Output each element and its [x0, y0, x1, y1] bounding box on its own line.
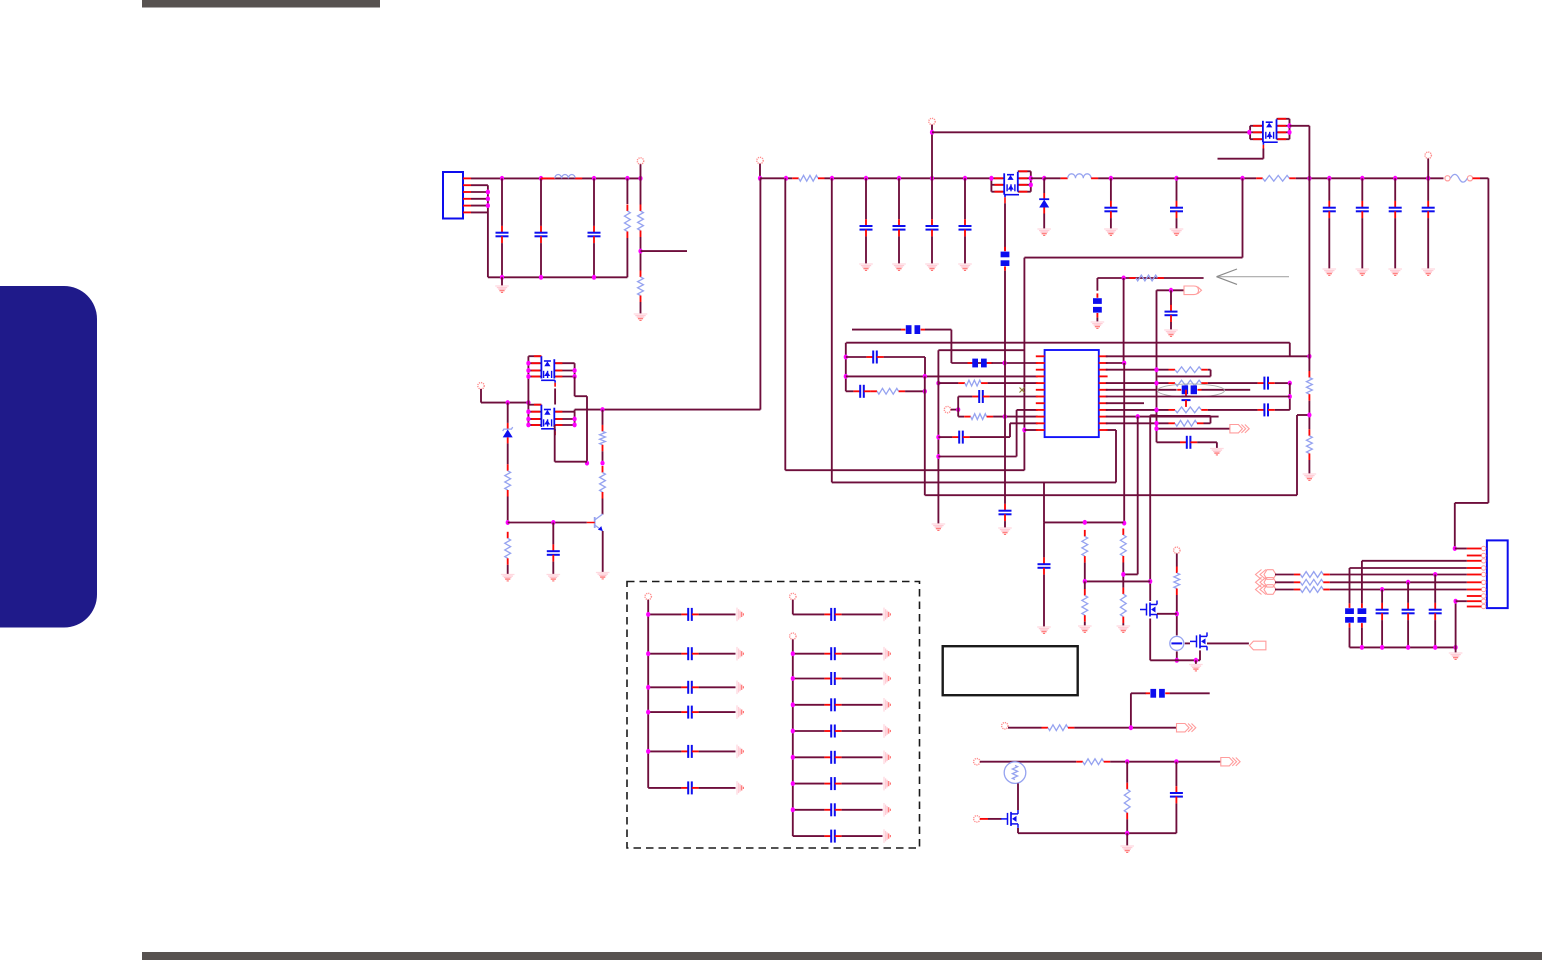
wire — [1157, 441, 1181, 443]
junction — [526, 409, 530, 414]
ground — [884, 672, 890, 686]
resistor R — [1174, 567, 1180, 596]
wire — [1106, 396, 1290, 398]
IC U1 left pin 1 — [1036, 355, 1045, 357]
capacitor C — [681, 706, 698, 719]
gnd stem — [1195, 660, 1197, 664]
junction — [844, 374, 848, 379]
junction — [539, 275, 543, 280]
ground — [998, 528, 1012, 534]
wire — [938, 349, 1024, 351]
capacitor C — [681, 781, 698, 794]
capacitor C — [681, 681, 698, 694]
rail wire — [825, 177, 992, 179]
wire — [1043, 522, 1045, 557]
wire — [842, 704, 883, 706]
wire — [647, 600, 649, 788]
resistor R on rail — [792, 175, 824, 181]
wire — [1170, 692, 1210, 694]
wire — [852, 329, 901, 331]
junction — [1433, 572, 1437, 577]
wire — [1043, 483, 1045, 522]
junction — [573, 417, 577, 422]
gate wire Q2 — [1262, 149, 1264, 159]
ground — [737, 781, 743, 795]
wire — [699, 750, 736, 752]
port P4 — [1425, 152, 1431, 158]
junction — [1288, 394, 1292, 399]
wire — [1106, 416, 1219, 418]
bus wire — [488, 276, 628, 278]
red lead — [1467, 595, 1482, 597]
wire — [575, 395, 587, 397]
bead FB — [901, 325, 925, 334]
port P11 — [790, 593, 796, 599]
bead FB — [1146, 689, 1170, 698]
capacitor C — [824, 608, 841, 621]
wire — [924, 357, 926, 376]
wire — [938, 456, 1016, 458]
rail wire — [760, 177, 792, 179]
annotation ellipse — [1158, 384, 1225, 397]
junction — [1122, 361, 1126, 366]
ground — [1120, 846, 1134, 852]
IC U1 right pin 2 — [1099, 362, 1108, 364]
capacitor C — [824, 777, 841, 790]
wire — [898, 236, 900, 263]
ground — [501, 575, 515, 581]
ground — [884, 724, 890, 738]
resistor R — [600, 466, 606, 499]
junction — [791, 676, 795, 681]
wire — [793, 809, 825, 811]
wire — [1328, 178, 1330, 201]
wire — [1381, 620, 1383, 647]
wire — [1131, 692, 1146, 694]
junction — [1287, 123, 1291, 128]
wire — [1275, 409, 1290, 411]
wire — [1110, 761, 1220, 763]
connector J1 pin 4 — [463, 198, 471, 200]
capacitor C — [1170, 201, 1183, 218]
wire — [964, 178, 966, 219]
mosfet Q6 dual p-fet — [528, 356, 574, 387]
wire — [1275, 382, 1290, 384]
junction — [1003, 361, 1007, 366]
junction — [1194, 658, 1198, 663]
junction — [486, 196, 490, 201]
wire — [990, 396, 1038, 398]
ground — [1104, 229, 1118, 235]
junction — [1406, 580, 1410, 585]
junction — [1307, 354, 1311, 359]
ground — [634, 314, 648, 320]
junction — [486, 203, 490, 208]
wire — [1157, 428, 1230, 430]
capacitor C — [824, 751, 841, 764]
wire — [1394, 178, 1396, 201]
resistor R — [1307, 429, 1313, 460]
capacitor C — [588, 226, 601, 243]
wire — [1218, 158, 1264, 160]
IC U1 left pin 6 — [1036, 389, 1045, 391]
capacitor C — [1376, 603, 1389, 620]
resistor R — [638, 205, 644, 238]
wire — [1361, 178, 1363, 201]
IC U1 left pin 9 — [1036, 409, 1045, 411]
junction — [1129, 725, 1133, 730]
ground — [1164, 330, 1178, 336]
bus wire — [1350, 646, 1456, 648]
wire — [1275, 589, 1294, 591]
junction — [1360, 176, 1364, 181]
wire — [1043, 178, 1045, 193]
ground — [1449, 653, 1463, 659]
resistor R — [1169, 407, 1208, 413]
ground — [1170, 229, 1184, 235]
wire — [759, 178, 761, 409]
wire — [1130, 693, 1132, 727]
junction — [486, 190, 490, 195]
wire — [1043, 214, 1045, 229]
wire — [471, 184, 488, 186]
capacitor C — [824, 725, 841, 738]
rail wire — [1044, 177, 1061, 179]
capacitor C — [681, 608, 698, 621]
junction — [791, 755, 795, 760]
transistor Q8 — [587, 514, 603, 531]
IC U1 right pin 4 — [1099, 375, 1108, 377]
ground — [932, 524, 946, 530]
junction — [758, 176, 762, 181]
ground — [596, 573, 610, 579]
IC U1 right pin 5 — [1099, 382, 1108, 384]
port P3 — [929, 118, 935, 124]
connector J1 pin 2 — [463, 184, 471, 186]
junction — [646, 612, 650, 617]
junction — [1003, 414, 1007, 419]
bus wire — [1018, 832, 1176, 834]
wire — [1096, 318, 1098, 322]
ground — [1421, 269, 1435, 275]
gnd stem — [1126, 833, 1128, 845]
wire — [1122, 563, 1124, 588]
wire — [924, 376, 926, 495]
wire — [1308, 126, 1310, 179]
wire — [1016, 410, 1018, 457]
resistor R — [505, 532, 511, 565]
junction — [864, 176, 868, 181]
resistor R — [1120, 588, 1126, 624]
junction — [844, 355, 848, 360]
wire — [931, 125, 933, 179]
capacitor C — [999, 504, 1012, 521]
wire — [1487, 178, 1489, 503]
resistor R — [1169, 380, 1208, 386]
wire — [958, 416, 964, 418]
red lead — [1473, 177, 1480, 179]
junction — [936, 454, 940, 459]
wire — [1137, 417, 1139, 575]
red lead — [1467, 567, 1482, 569]
red lead — [1467, 560, 1482, 562]
wire — [1176, 595, 1178, 635]
wire — [1361, 561, 1363, 604]
wire — [527, 356, 529, 425]
ground — [547, 575, 561, 581]
wire — [586, 396, 588, 463]
IC U1 right pin 12 — [1099, 429, 1108, 431]
junction — [506, 400, 510, 405]
IC U1 left pin 8 — [1036, 402, 1045, 404]
junction — [1453, 546, 1457, 551]
wire — [575, 409, 761, 411]
wire — [1361, 218, 1363, 268]
junction — [791, 729, 795, 734]
capacitor C — [1165, 305, 1178, 322]
junction — [1029, 176, 1033, 181]
resistor R — [1120, 529, 1126, 563]
junction — [1360, 645, 1364, 650]
wire — [1208, 382, 1258, 384]
wire — [1330, 589, 1467, 591]
wire — [1297, 414, 1309, 416]
wire — [648, 787, 681, 789]
IC U1 — [1045, 350, 1099, 437]
junction — [936, 381, 940, 386]
connector J1 pin 5 — [463, 205, 471, 207]
junction — [573, 368, 577, 373]
junction — [830, 176, 834, 181]
junction — [1083, 520, 1087, 525]
wire — [1208, 369, 1211, 371]
red lead — [1467, 574, 1482, 576]
wire — [1085, 580, 1150, 582]
wire — [988, 382, 1038, 384]
wire — [648, 686, 681, 688]
wire — [846, 356, 867, 358]
wire — [865, 178, 867, 219]
ground — [884, 698, 890, 712]
wire — [552, 523, 554, 545]
wire — [1454, 503, 1456, 549]
IC U1 left pin 5 — [1036, 382, 1045, 384]
connector CN1 pin 3 — [1481, 559, 1485, 563]
rail wire — [1098, 177, 1176, 179]
ground — [925, 264, 939, 270]
port P9 — [974, 816, 980, 822]
capacitor C — [860, 219, 873, 236]
wire — [1427, 218, 1429, 268]
junction — [526, 417, 530, 422]
wire — [988, 818, 1002, 820]
wire — [1158, 375, 1211, 377]
footer bar — [142, 952, 1542, 960]
bus wire — [1150, 659, 1200, 661]
wire — [1123, 573, 1138, 575]
ground — [737, 647, 743, 661]
wire — [602, 531, 604, 572]
wire — [699, 686, 736, 688]
wire — [1330, 574, 1467, 576]
wire — [1106, 362, 1124, 364]
junction — [1125, 759, 1129, 764]
rail wire — [1296, 177, 1444, 179]
wire — [1407, 582, 1409, 603]
mosfet Q2 dual p-fet — [1250, 119, 1289, 149]
wire — [842, 653, 883, 655]
IC U1 right pin 6 — [1099, 389, 1108, 391]
ground — [884, 777, 890, 791]
bus wire — [1044, 521, 1123, 523]
wire — [593, 243, 595, 277]
wire — [1202, 389, 1251, 391]
mosfet Q1 dual p-fet — [991, 171, 1030, 203]
junction — [1109, 176, 1113, 181]
bead FB — [1001, 247, 1010, 271]
junction — [923, 374, 927, 379]
junction — [526, 422, 530, 427]
wire — [792, 600, 794, 615]
resistor R — [958, 380, 987, 386]
red lead — [1467, 581, 1482, 583]
mosfet Q3 — [1140, 601, 1157, 619]
ground — [737, 705, 743, 719]
IC U1 right pin 11 — [1099, 422, 1108, 424]
wire — [1350, 567, 1467, 569]
junction — [1174, 759, 1178, 764]
junction — [1247, 130, 1251, 135]
wire — [842, 783, 883, 785]
capacitor C — [1038, 557, 1051, 574]
junction — [1029, 182, 1033, 187]
connector CN1 — [1487, 540, 1508, 608]
resistor R — [1129, 275, 1164, 281]
wire — [1455, 502, 1489, 504]
red lead — [1467, 555, 1482, 557]
current source symbol — [1170, 636, 1184, 650]
junction — [1287, 130, 1291, 135]
resistor R — [871, 388, 906, 394]
IC U1 left pin 10 — [1036, 416, 1045, 418]
wire — [846, 375, 1038, 377]
capacitor C — [1389, 201, 1402, 218]
junction — [646, 749, 650, 754]
wire — [648, 750, 681, 752]
left blue tab — [0, 286, 97, 628]
port P6 — [1174, 547, 1180, 553]
junction — [646, 685, 650, 690]
mosfet Q5 — [1001, 810, 1018, 828]
junction — [585, 461, 589, 466]
port chevron 1 — [1256, 570, 1277, 580]
resistor R — [1169, 420, 1204, 426]
IC U1 left pin 11 — [1036, 422, 1045, 424]
fuse F1 — [1445, 174, 1473, 182]
wire — [793, 613, 825, 615]
wire — [993, 416, 1038, 418]
wire — [471, 198, 488, 200]
ground — [884, 647, 890, 661]
wire — [793, 835, 825, 837]
wire — [1290, 125, 1310, 127]
wire — [1427, 159, 1429, 179]
rail wire — [471, 177, 641, 179]
capacitor C — [681, 745, 698, 758]
bead FB pair — [1177, 385, 1201, 394]
resistor R — [1082, 589, 1088, 622]
capacitor C — [1422, 201, 1435, 218]
port P2 — [757, 157, 763, 163]
junction — [600, 461, 604, 466]
junction — [1125, 831, 1129, 836]
junction — [1154, 426, 1158, 431]
junction — [1122, 276, 1126, 281]
junction — [1154, 407, 1158, 412]
wire — [932, 131, 1249, 133]
junction — [592, 176, 596, 181]
wire — [471, 205, 488, 207]
wire — [1110, 178, 1112, 201]
resistor R — [1169, 367, 1208, 373]
wire — [1106, 422, 1169, 424]
junction — [592, 275, 596, 280]
wire — [1210, 370, 1212, 377]
wire — [1170, 290, 1172, 305]
junction — [1022, 428, 1026, 433]
wire — [1008, 727, 1042, 729]
resistor R — [1082, 530, 1088, 563]
wire — [1216, 442, 1218, 448]
wire — [1110, 218, 1112, 228]
ground — [1117, 626, 1131, 632]
annotation arrow — [1217, 269, 1290, 284]
wire — [1023, 258, 1025, 471]
wire — [1455, 548, 1467, 550]
resistor R — [1307, 371, 1313, 401]
wire — [1010, 422, 1038, 424]
bead FB — [968, 359, 992, 368]
capacitor C — [824, 830, 841, 843]
inductor L1 — [541, 177, 548, 179]
wire — [471, 191, 488, 193]
wire — [842, 809, 883, 811]
gate wire — [1004, 203, 1006, 250]
wire — [1185, 642, 1190, 644]
wire — [793, 704, 825, 706]
IC U1 right pin 3 — [1099, 369, 1108, 371]
port P7 — [1002, 723, 1008, 729]
wire — [1456, 600, 1467, 602]
rail wire — [1480, 177, 1488, 179]
header bar — [142, 0, 380, 8]
wire — [1170, 322, 1172, 330]
red lead — [1467, 548, 1482, 550]
ground — [1037, 627, 1051, 633]
wire — [481, 402, 528, 404]
wire — [1199, 650, 1201, 660]
ground — [737, 745, 743, 759]
capacitor C — [824, 803, 841, 816]
wire — [1176, 651, 1178, 660]
capacitor C — [496, 226, 509, 243]
wire — [1175, 803, 1177, 833]
wire — [951, 362, 992, 364]
wire — [1308, 460, 1310, 474]
junction — [1240, 176, 1244, 181]
wire — [540, 178, 542, 226]
wire — [1084, 581, 1086, 589]
